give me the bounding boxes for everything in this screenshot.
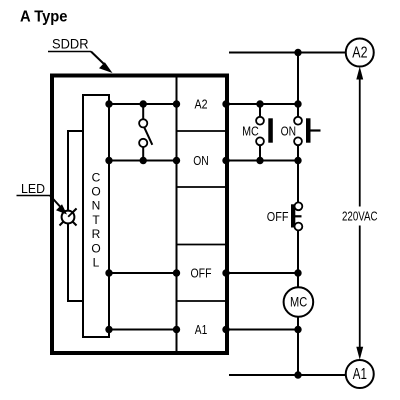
terminal strip edge <box>176 76 178 354</box>
svg-text:O: O <box>91 185 100 199</box>
supply line 220VAC lower arrow <box>359 226 361 349</box>
contact MC auxiliary <box>259 104 261 117</box>
svg-text:LED: LED <box>21 182 45 196</box>
wire OFF to coil <box>297 230 299 287</box>
svg-text:ON: ON <box>193 153 209 168</box>
pushbutton ON <box>297 104 299 117</box>
terminal circle A1 <box>346 360 374 388</box>
svg-text:A2: A2 <box>195 97 208 112</box>
wire bottom rail to A1 <box>229 374 346 376</box>
LED lamp D1 <box>60 209 77 226</box>
wire top rail drop <box>297 53 299 105</box>
svg-text:O: O <box>91 241 100 255</box>
svg-text:A1: A1 <box>195 322 208 337</box>
wire ON row external <box>225 160 298 162</box>
wire ON to OFF <box>297 161 299 203</box>
wire coil to bottom rail <box>297 317 299 375</box>
switch S1 internal <box>142 104 144 119</box>
svg-text:A2: A2 <box>352 45 367 62</box>
wire A1 row external <box>225 329 298 331</box>
svg-text:R: R <box>92 227 101 241</box>
SDDR box U1 <box>52 76 227 354</box>
svg-text:SDDR: SDDR <box>52 36 89 52</box>
svg-text:OFF: OFF <box>191 266 212 281</box>
wire OFF row internal <box>109 272 177 274</box>
supply line 220VAC upper arrow <box>356 67 363 80</box>
svg-text:MC: MC <box>290 294 307 310</box>
terminal divider ON/blank <box>177 186 228 188</box>
terminal divider blank/OFF <box>177 244 228 246</box>
junction dots A1 row <box>105 326 301 333</box>
wire top rail to A2 <box>229 52 346 54</box>
svg-text:MC: MC <box>242 123 259 138</box>
svg-text:ON: ON <box>281 123 296 138</box>
control block <box>83 95 109 337</box>
svg-text:A Type: A Type <box>20 9 68 26</box>
wire OFF row external <box>225 272 298 274</box>
terminal divider OFF/A1 <box>177 300 228 302</box>
svg-text:T: T <box>92 213 100 227</box>
wire ON row internal <box>109 160 177 162</box>
coil MC <box>284 287 314 317</box>
wire A1 row internal <box>109 329 177 331</box>
junction dot top rail <box>294 49 301 56</box>
pushbutton OFF <box>291 204 295 227</box>
junction dots OFF row <box>105 269 301 276</box>
junction dot bottom rail <box>294 371 301 378</box>
junction dots A2 row <box>105 100 301 107</box>
junction dots ON row <box>105 157 301 164</box>
wire LED branch top <box>68 131 83 217</box>
wire A2 row internal <box>109 103 177 105</box>
wire LED branch bottom <box>68 217 83 301</box>
svg-text:OFF: OFF <box>267 209 289 224</box>
svg-text:220VAC: 220VAC <box>342 209 378 224</box>
svg-text:N: N <box>92 199 101 213</box>
control block text <box>91 170 100 269</box>
terminal divider A2/ON <box>177 130 228 132</box>
terminal circle A2 <box>346 39 374 67</box>
svg-text:C: C <box>92 170 101 184</box>
wire A2 row external <box>225 103 298 105</box>
svg-text:A1: A1 <box>353 366 367 383</box>
svg-text:L: L <box>93 256 100 270</box>
